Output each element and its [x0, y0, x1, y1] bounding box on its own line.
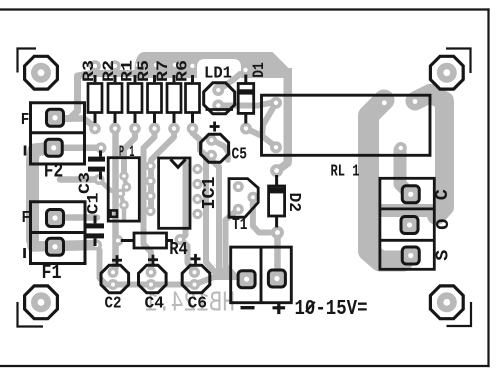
wire: diagonal trace bundle R1	[124, 129, 135, 172]
wire: trace from T1 bottom-left pad down	[226, 209, 239, 275]
svg-text:LD1: LD1	[204, 65, 232, 84]
capacitor C1	[87, 216, 105, 247]
svg-text:C: C	[432, 189, 453, 200]
wire: trace from C5 bottom pad down to power connector	[212, 155, 247, 279]
wire: diagonal trace bundle R5	[144, 129, 155, 213]
pin pad F1 bottom	[47, 238, 64, 255]
LED LD1	[204, 83, 235, 114]
wire: trace from C3 bottom pad into P1	[99, 180, 121, 194]
node: mounting hole top-right	[430, 56, 463, 89]
pin pad F1 top	[47, 210, 64, 227]
svg-text:IC1: IC1	[200, 176, 220, 209]
svg-text:C6: C6	[188, 294, 208, 313]
transistor T1	[229, 179, 258, 218]
svg-text:R7: R7	[154, 60, 172, 82]
pin pad F2 bottom	[45, 139, 62, 156]
node: resistor bottom pads row	[89, 123, 101, 135]
node: relay pads	[270, 97, 282, 109]
svg-text:D1: D1	[250, 62, 268, 78]
label I (F1)	[23, 248, 26, 258]
wire: relay pad diagonal	[262, 103, 276, 136]
wire: P1 pad chain links	[121, 176, 127, 219]
wire: wide band from F2 bottom pad down left side	[33, 148, 53, 240]
wire: chain C2-C4 bottom pads	[113, 282, 151, 288]
wire: trace F2 top pad to R3 bottom pad	[55, 119, 95, 128]
output connector	[380, 178, 434, 269]
svg-text:F1: F1	[42, 262, 62, 285]
relay RL1	[262, 95, 431, 155]
node: LD1 pads	[212, 84, 224, 96]
label plus	[273, 302, 286, 315]
svg-text:C1: C1	[85, 193, 103, 215]
wire: chain C4-C6 bottom pads	[151, 282, 195, 288]
op-amp IC1	[159, 158, 190, 228]
svg-text:R5: R5	[135, 60, 153, 82]
resistor R4	[121, 233, 173, 248]
wire: board frame bottom	[0, 365, 489, 367]
node: corner bracket top-left	[18, 49, 37, 73]
svg-text:R4: R4	[169, 240, 188, 260]
node: C5 pads	[206, 135, 217, 146]
wire: D2 bottom pad down to plus pad	[274, 233, 281, 271]
polarity plus C5	[210, 122, 220, 132]
wire: trace from T1 right pad to D2 bottom pad	[253, 197, 270, 232]
node: electrolytic C4 pads	[146, 267, 157, 278]
wire: wide power trace through relay to S pad	[369, 100, 404, 261]
wire: chain C6 pad to power minus pad	[195, 277, 241, 285]
wire: trace from F2 top pad up and right to top band	[57, 74, 140, 119]
resistor R2	[108, 75, 122, 123]
wire: board frame top	[0, 8, 489, 10]
trimmer P1	[108, 158, 139, 221]
svg-text:C3: C3	[76, 172, 94, 194]
svg-text:C5: C5	[232, 146, 248, 165]
capacitor C3	[88, 151, 105, 180]
node: corner bracket bottom-left	[18, 302, 44, 327]
svg-text:C2: C2	[105, 294, 122, 313]
svg-text:C4: C4	[145, 294, 165, 313]
resistor R7	[167, 75, 181, 123]
node: mounting hole top-left	[25, 56, 58, 89]
node: P1 pads	[119, 171, 129, 181]
wire: diagonal trace bundle R7	[151, 129, 174, 210]
node: C1 bottom pad	[91, 240, 102, 251]
svg-text:F: F	[21, 111, 30, 130]
wire: LD1 top pad tail	[218, 74, 240, 90]
node: R4 lead pads	[113, 235, 124, 246]
svg-text:10-15V=: 10-15V=	[295, 298, 368, 321]
label slashed zero stroke	[306, 302, 315, 312]
wire: trace R6 pad down past C5 to bottom chain	[193, 129, 222, 277]
wire: wide band across F1 bottom to R4 area	[33, 240, 97, 247]
polarity plus C4	[148, 255, 158, 265]
svg-text:S: S	[433, 250, 454, 261]
node: mounting hole bottom-right	[430, 286, 463, 319]
node: IC1 left pads	[145, 161, 155, 171]
svg-text:R1: R1	[119, 60, 137, 82]
wire: horizontal trace under C3 label to pad	[60, 176, 99, 183]
svg-text:RL 1: RL 1	[331, 163, 360, 182]
node: electrolytic C6 pads	[189, 267, 200, 278]
node: corner bracket top-right	[446, 49, 471, 74]
gray donut pads	[31, 60, 457, 312]
electrolytic C6	[182, 265, 210, 293]
fuse holder F1	[31, 202, 86, 264]
node: T1 pads	[233, 181, 244, 192]
resistor R6	[186, 75, 200, 123]
polarity plus C2	[112, 255, 122, 265]
resistor R1	[128, 75, 142, 123]
diode D1	[238, 75, 254, 124]
wire: band elbow down to D2 top pad	[278, 155, 288, 170]
capacitor C5	[201, 134, 229, 162]
svg-text:R2: R2	[100, 60, 118, 82]
electrolytic C2	[101, 265, 129, 293]
wire: trace F2 bottom pad to C3 top pad	[54, 145, 101, 152]
node: IC1 right pads	[192, 164, 202, 174]
diode D2	[269, 175, 285, 228]
power connector	[231, 247, 292, 303]
wire: white cutout inside top band	[197, 59, 241, 79]
wire: trace bundle extension to C4 top pad	[144, 213, 152, 272]
pin pad F2 top	[47, 109, 64, 126]
node: electrolytic C2 pads	[108, 267, 119, 278]
wire: top wide copper band over resistor row	[134, 52, 292, 78]
polarity plus C6	[191, 254, 201, 264]
wire: LD1 bottom pad to relay pad	[218, 103, 276, 106]
node: D1 bottom pad	[240, 123, 252, 135]
node: mounting hole bottom-left	[25, 286, 58, 319]
node: corner hole discs	[31, 63, 51, 83]
wire: vertical trace R2 pad down to C2	[113, 129, 116, 273]
wire: board frame right	[487, 10, 489, 367]
node: connector square pads gray fills	[47, 109, 64, 126]
wire: trace under IC1 down to C6 top pad	[181, 162, 195, 272]
svg-text:R6: R6	[173, 60, 191, 82]
svg-text:F: F	[22, 209, 31, 228]
wire: gray band left of output connector	[371, 203, 380, 247]
svg-text:O: O	[433, 219, 454, 230]
node: white drill holes of all pads	[38, 63, 451, 306]
fuse holder F2	[31, 103, 85, 164]
label minus	[241, 306, 255, 309]
node: resistor top pads row	[89, 60, 101, 72]
electrolytic C4	[139, 265, 167, 293]
resistor R5	[148, 75, 162, 123]
node: corner bracket bottom-right	[447, 302, 472, 326]
wire: D1 bottom pad diagonal to relay pad	[246, 129, 276, 148]
resistor R3	[88, 75, 102, 123]
wire: wide power trace right of relay down to C/O pads	[415, 94, 445, 216]
svg-text:P 1: P 1	[119, 143, 135, 161]
svg-text:T1: T1	[232, 216, 248, 235]
wire: trace C1 bottom pad down and to C2 bottom pad	[97, 245, 114, 285]
wire: trace relay bottom pad down to C pad (horn)	[400, 150, 408, 192]
label I (F2)	[24, 146, 27, 156]
svg-text:D2: D2	[284, 193, 303, 213]
node: D2 bottom pad	[271, 226, 284, 239]
node: C3 top pad	[96, 142, 107, 153]
wire: stub right of C5	[214, 141, 228, 160]
wire: trace F1 top pad right to C1 top lead	[55, 214, 97, 221]
wire: gray band between C and O cells	[372, 204, 436, 217]
svg-text:F2: F2	[44, 161, 64, 184]
svg-text:R3: R3	[80, 60, 98, 82]
